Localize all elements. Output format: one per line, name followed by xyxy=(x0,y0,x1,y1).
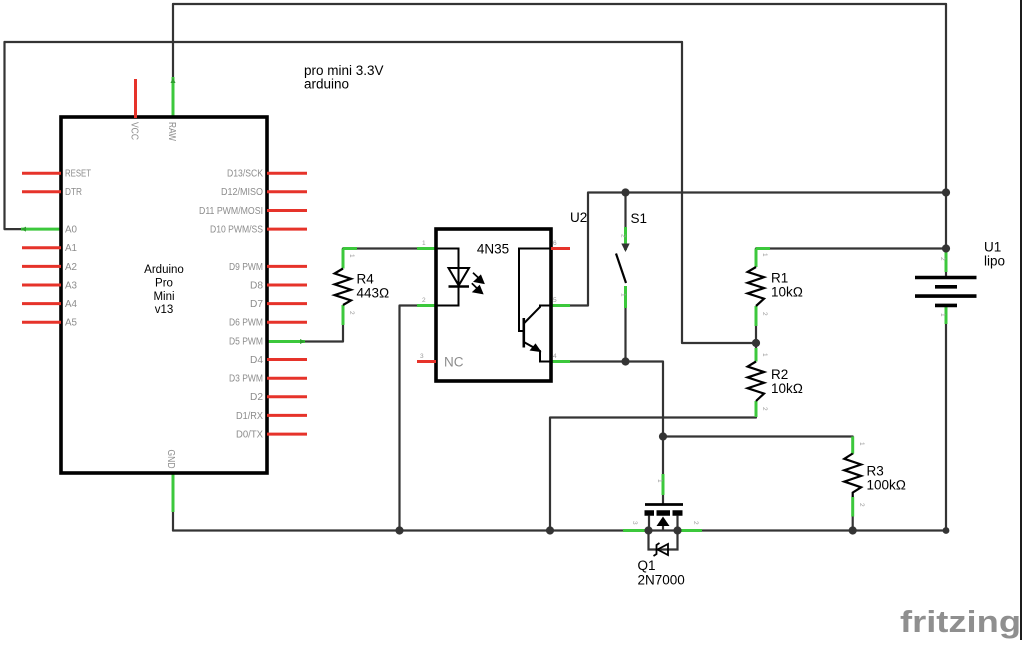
pin battery-2 stub green xyxy=(945,250,948,272)
wire S1 upper lead xyxy=(624,193,626,228)
MOSFET Q1 xyxy=(631,479,699,587)
svg-text:2: 2 xyxy=(858,503,865,507)
svg-text:1: 1 xyxy=(348,254,355,258)
transistor emitter arrow xyxy=(531,344,541,351)
svg-text:10kΩ: 10kΩ xyxy=(771,381,803,396)
left pins red stubs xyxy=(22,173,61,322)
pin numbers U2 xyxy=(420,240,557,360)
mosfet channel bar mid xyxy=(657,510,671,516)
svg-text:D12/MISO: D12/MISO xyxy=(221,187,263,198)
mosfet channel bar left xyxy=(645,510,655,516)
pin A1 stub xyxy=(22,246,61,249)
svg-text:A4: A4 xyxy=(65,299,77,310)
pin D2 stub xyxy=(267,395,307,398)
transistor collector xyxy=(524,306,551,324)
wire R4 top to U2 pin1 xyxy=(343,247,436,249)
svg-text:1: 1 xyxy=(656,479,663,483)
mosfet body lead xyxy=(662,526,664,531)
wire vertical x682 down to R1/R2 node xyxy=(682,42,756,343)
pin D6 stub xyxy=(267,321,307,324)
wire ground rail bottom xyxy=(173,529,946,531)
pin S1-2 stub green xyxy=(624,227,627,250)
pin D10 stub xyxy=(267,228,307,231)
wire end green R1 top xyxy=(756,247,770,250)
resistor R2 pin1 stub xyxy=(755,348,758,362)
wire end arrow A0 xyxy=(21,227,26,232)
svg-text:v13: v13 xyxy=(155,304,174,316)
OPTOCOUPLER U2 4N35 xyxy=(417,210,587,381)
svg-text:2: 2 xyxy=(422,297,426,304)
pin U2-6 stub red xyxy=(551,247,570,250)
op-to body U2 xyxy=(436,229,551,381)
wire battery right vertical xyxy=(945,4,947,276)
svg-text:RAW: RAW xyxy=(166,122,177,141)
body diode zener bar xyxy=(654,543,660,556)
svg-text:3: 3 xyxy=(420,353,424,360)
svg-text:3: 3 xyxy=(631,521,638,525)
pin S1-1 stub green xyxy=(624,286,627,308)
svg-text:A1: A1 xyxy=(65,243,77,254)
junction battery net top wire xyxy=(942,188,950,196)
pin A5 stub xyxy=(22,321,61,324)
pin D13 stub xyxy=(267,172,307,175)
pin D12 stub xyxy=(267,190,307,193)
mosfet source lead xyxy=(648,516,650,531)
arduino U3 body xyxy=(61,117,267,473)
resistor R1 zigzag xyxy=(748,267,764,306)
wire left vertical to A0 xyxy=(5,42,25,229)
RESISTOR R3 xyxy=(844,437,906,517)
wire end arrow RAW xyxy=(171,78,176,84)
svg-text:arduino: arduino xyxy=(304,77,349,92)
SWITCH S1 xyxy=(616,211,647,297)
label arduino center xyxy=(144,264,184,316)
svg-text:D0/TX: D0/TX xyxy=(236,430,263,441)
svg-text:100kΩ: 100kΩ xyxy=(867,478,907,493)
battery plate long top xyxy=(915,276,977,280)
svg-text:5: 5 xyxy=(553,297,557,304)
svg-text:VCC: VCC xyxy=(129,122,140,140)
phototransistor base path from pin6 xyxy=(519,249,551,332)
GREEN WIRE ENDS / CONNECTED PIN STUBS xyxy=(21,77,946,531)
right pins red stubs xyxy=(267,173,307,434)
pin VCC stub red xyxy=(134,79,137,118)
resistor R2 pin2 stub xyxy=(755,401,758,417)
mosfet gate plate xyxy=(645,503,683,506)
resistor R2 zigzag xyxy=(748,362,764,402)
left pin labels xyxy=(65,169,91,329)
svg-text:443Ω: 443Ω xyxy=(357,286,390,301)
svg-text:1: 1 xyxy=(620,293,627,297)
svg-text:6: 6 xyxy=(553,240,557,247)
svg-text:D9 PWM: D9 PWM xyxy=(229,262,263,273)
svg-text:R3: R3 xyxy=(867,464,884,479)
pin GND stub green xyxy=(172,473,175,512)
svg-text:1: 1 xyxy=(939,313,946,317)
pin DTR stub xyxy=(22,190,61,193)
wire U2 pin2 vertical down xyxy=(400,306,437,531)
pin RAW stub green xyxy=(172,77,175,118)
resistor R3 zigzag xyxy=(844,454,861,498)
svg-text:D5 PWM: D5 PWM xyxy=(229,336,263,347)
svg-text:4N35: 4N35 xyxy=(477,242,509,257)
svg-text:A5: A5 xyxy=(65,318,77,329)
svg-text:D13/SCK: D13/SCK xyxy=(227,169,263,180)
svg-text:4: 4 xyxy=(553,353,557,360)
RESISTOR R4 xyxy=(335,249,390,326)
transistor base bar xyxy=(522,318,525,348)
svg-text:2: 2 xyxy=(761,407,768,411)
junction R1 R2 node xyxy=(752,339,760,347)
svg-text:GND: GND xyxy=(165,450,176,469)
pin A0 stub green xyxy=(21,228,61,231)
svg-text:RESET: RESET xyxy=(65,169,91,180)
svg-text:Arduino: Arduino xyxy=(144,264,184,276)
svg-text:DTR: DTR xyxy=(65,187,82,198)
svg-text:1: 1 xyxy=(858,442,865,446)
svg-text:lipo: lipo xyxy=(984,254,1005,269)
window border right xyxy=(1020,0,1022,640)
pin A4 stub xyxy=(22,302,61,305)
pin battery-1 stub green xyxy=(945,307,948,324)
wire end green R4 top xyxy=(343,247,357,250)
pin D8 stub xyxy=(267,284,307,287)
junction S1 bottom xyxy=(621,357,629,365)
svg-text:Pro: Pro xyxy=(155,277,173,289)
svg-text:A0: A0 xyxy=(65,225,77,236)
wire battery bottom vertical xyxy=(945,324,947,531)
svg-text:U1: U1 xyxy=(984,240,1001,255)
svg-text:2: 2 xyxy=(692,521,699,525)
wire RAW vertical xyxy=(172,4,174,77)
wire U2 pin5 to S1 top net xyxy=(568,193,946,306)
svg-text:1: 1 xyxy=(761,253,768,257)
svg-text:R4: R4 xyxy=(357,272,375,287)
pin Q1 gate stub green xyxy=(662,474,665,495)
switch S1 arrow xyxy=(621,244,629,253)
light arrow 2 xyxy=(472,283,483,293)
resistor R1 pin1 stub xyxy=(755,249,758,268)
RESISTOR R2 xyxy=(748,348,804,417)
pin U2-3 stub red xyxy=(417,360,436,363)
wire R1 bottom to node xyxy=(755,326,757,343)
svg-text:D7: D7 xyxy=(250,299,263,310)
svg-text:2: 2 xyxy=(761,312,768,316)
wire gate node down to Q1 gate xyxy=(662,495,664,503)
junction gate node xyxy=(659,432,667,440)
pin Q1-2 stub green xyxy=(678,529,702,532)
pin Q1-3 stub green xyxy=(623,529,648,532)
svg-text:R2: R2 xyxy=(771,367,788,382)
wire node to R2 top xyxy=(755,343,757,350)
svg-text:D2: D2 xyxy=(250,392,263,403)
svg-text:2: 2 xyxy=(939,257,946,261)
LED cathode bar xyxy=(449,285,470,287)
wire D5 to R4 bottom xyxy=(305,325,343,342)
resistor R3 pin2 stub xyxy=(851,497,854,517)
pin U2-4 stub green xyxy=(551,360,570,363)
svg-text:D1/RX: D1/RX xyxy=(236,411,263,422)
svg-text:D3 PWM: D3 PWM xyxy=(229,374,263,385)
svg-text:D4: D4 xyxy=(250,355,263,366)
resistor R1 pin2 stub xyxy=(755,306,758,326)
svg-text:U2: U2 xyxy=(570,210,587,225)
wire R3 bottom to ground rail xyxy=(852,497,854,531)
svg-text:2N7000: 2N7000 xyxy=(638,572,685,587)
battery plate short xyxy=(935,285,957,289)
svg-text:1: 1 xyxy=(422,240,426,247)
junction Q1 drain xyxy=(673,526,681,534)
wire gate node to R3 top xyxy=(663,437,853,454)
svg-text:10kΩ: 10kΩ xyxy=(771,285,803,300)
svg-text:D10 PWM/SS: D10 PWM/SS xyxy=(210,225,263,236)
right pin labels xyxy=(199,169,263,441)
mosfet drain lead xyxy=(676,516,678,531)
resistor R4 pin1 stub xyxy=(342,249,345,269)
BATTERY U1 xyxy=(915,240,1005,318)
junction battery minus ground xyxy=(943,527,950,534)
LED triangle xyxy=(449,268,470,286)
svg-text:S1: S1 xyxy=(631,211,648,226)
svg-text:Mini: Mini xyxy=(153,291,174,303)
mosfet channel bar right xyxy=(673,510,683,516)
pin U2-5 stub green xyxy=(551,304,570,307)
resistor R4 zigzag xyxy=(335,269,351,306)
svg-text:D6 PWM: D6 PWM xyxy=(229,318,263,329)
svg-text:fritzing: fritzing xyxy=(900,604,1021,639)
light arrow 1 xyxy=(473,273,484,283)
LED anode path xyxy=(436,249,459,287)
mosfet body arrow xyxy=(657,517,670,527)
resistor R3 pin1 stub xyxy=(851,437,854,454)
pin D11 stub xyxy=(267,209,307,212)
transistor emitter xyxy=(524,342,551,362)
pin D0 stub xyxy=(267,433,307,436)
battery plate short bottom xyxy=(935,304,957,308)
wire U2 pin4 to S1 bottom xyxy=(568,360,626,362)
svg-text:D8: D8 xyxy=(250,280,263,291)
pin A2 stub xyxy=(22,265,61,268)
wire R1 top to battery plus xyxy=(756,247,946,249)
svg-text:D11 PWM/MOSI: D11 PWM/MOSI xyxy=(199,206,263,217)
pin A3 stub xyxy=(22,284,61,287)
body diode loop xyxy=(649,531,678,550)
junction Q1 source xyxy=(644,526,652,534)
svg-text:NC: NC xyxy=(444,355,464,370)
pin D1 stub xyxy=(267,414,307,417)
svg-text:2: 2 xyxy=(348,311,355,315)
switch S1 blade xyxy=(616,254,626,284)
svg-text:2: 2 xyxy=(620,234,627,238)
junction battery plus xyxy=(942,244,950,252)
resistor R4 pin2 stub xyxy=(342,305,345,325)
svg-text:R1: R1 xyxy=(771,271,788,286)
note pro mini 3.3V arduino xyxy=(304,63,384,92)
pin D4 stub xyxy=(267,358,307,361)
wire top from RAW to battery column xyxy=(173,3,946,5)
wire R2 bottom to left then ground rail xyxy=(550,418,756,531)
RESISTOR R1 xyxy=(748,249,804,327)
wire S1 bottom to gate node xyxy=(626,362,664,475)
svg-text:1: 1 xyxy=(761,353,768,357)
svg-text:A2: A2 xyxy=(65,262,77,273)
LED cathode path xyxy=(436,287,459,306)
pin RESET stub xyxy=(22,172,61,175)
junction R2 ground xyxy=(546,526,554,534)
pin U2-1 stub green xyxy=(417,247,436,250)
junction S1 top xyxy=(621,188,629,196)
pin U2-2 stub green xyxy=(417,304,436,307)
body diode triangle xyxy=(658,544,669,555)
junction U2 pin2 ground xyxy=(395,526,403,534)
wire GND vertical xyxy=(172,512,174,531)
battery plate long bottom xyxy=(915,294,977,298)
pin D5 stub green xyxy=(267,340,305,343)
wire end arrow D5 xyxy=(300,339,305,344)
wire S1 lower lead xyxy=(624,308,626,362)
pin D3 stub xyxy=(267,377,307,380)
pin D7 stub xyxy=(267,302,307,305)
svg-text:Q1: Q1 xyxy=(638,558,656,573)
pin D9 stub xyxy=(267,265,307,268)
wire second horizontal A0 net xyxy=(5,41,683,43)
junction R3 ground xyxy=(849,526,857,534)
svg-text:A3: A3 xyxy=(65,280,77,291)
